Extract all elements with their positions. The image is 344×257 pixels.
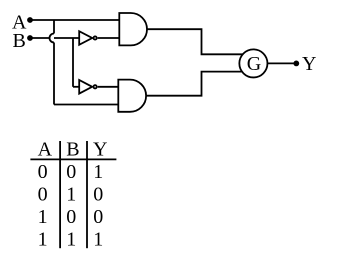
svg-text:0: 0 [66,161,76,183]
svg-text:G: G [247,53,261,75]
svg-text:B: B [13,30,26,52]
svg-text:0: 0 [93,184,103,206]
svg-text:1: 1 [66,229,76,251]
svg-text:1: 1 [66,184,76,206]
svg-text:1: 1 [93,229,103,251]
svg-text:0: 0 [38,161,48,183]
svg-text:0: 0 [93,206,103,228]
svg-text:1: 1 [38,229,48,251]
svg-text:0: 0 [66,206,76,228]
svg-text:B: B [66,139,79,161]
svg-text:Y: Y [302,53,316,75]
svg-text:Y: Y [93,139,107,161]
svg-text:1: 1 [38,206,48,228]
svg-text:1: 1 [93,161,103,183]
svg-text:A: A [38,139,53,161]
svg-text:0: 0 [38,184,48,206]
